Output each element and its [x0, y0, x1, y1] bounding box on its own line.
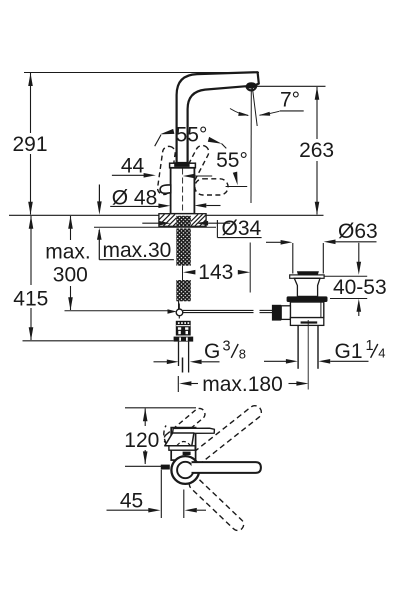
dimension 120 [144, 409, 146, 427]
wire: 40-53 bottom reference line [330, 298, 367, 300]
faucet spout outline [177, 72, 259, 163]
svg-text:Ø63: Ø63 [338, 220, 378, 243]
svg-text:143: 143 [198, 261, 233, 284]
dimension 263 vertical line [316, 87, 318, 139]
plan body [171, 428, 195, 461]
dimension 40-53 [358, 243, 360, 262]
svg-text:55°: 55° [176, 124, 208, 147]
drain flange lip [290, 275, 324, 278]
svg-text:7°: 7° [280, 89, 300, 112]
svg-text:291: 291 [12, 133, 47, 156]
drain side stub [281, 306, 290, 320]
arrow left of upper 55 [160, 129, 175, 135]
threaded shank segment 3 [176, 280, 191, 301]
arrows on escutcheon (mounting) [142, 222, 160, 224]
wire: 120 bottom reference line [125, 465, 162, 467]
svg-text:max.180: max.180 [202, 373, 283, 396]
G 1 1/4 callout arrows [264, 360, 286, 362]
drain inlet dark block [272, 305, 281, 321]
dimension 45 [160, 470, 162, 518]
drain locknut [290, 318, 323, 326]
svg-text:1: 1 [366, 338, 374, 354]
angle 7 degree vertical reference line [250, 86, 252, 203]
solid lever tip at body left [160, 185, 171, 193]
svg-text:max.30: max.30 [103, 239, 172, 262]
svg-text:263: 263 [299, 139, 334, 162]
svg-text:8: 8 [239, 346, 246, 361]
arrow below right 55 [233, 172, 238, 186]
drain flange extension lines [292, 243, 294, 274]
escutcheon hatch right [191, 214, 206, 226]
svg-text:120: 120 [124, 429, 159, 452]
supply connection nuts [176, 321, 191, 336]
max30 tick with up arrow [98, 230, 100, 260]
escutcheon flange at deck [159, 214, 206, 227]
max30 down arrow above deck [98, 185, 100, 204]
svg-text:300: 300 [53, 264, 88, 287]
svg-text:40-53: 40-53 [333, 276, 387, 299]
supply connection lower band [174, 337, 194, 342]
plan body dark tab [183, 452, 191, 455]
supply hoses [178, 342, 180, 366]
arrow right of upper 55 [208, 137, 222, 144]
wire: 415 bottom reference line [23, 340, 174, 342]
wire: horizontal pipe to drain [183, 309, 254, 311]
wire: max300 bottom reference line [65, 310, 169, 312]
wire: 143 right extension line [249, 243, 251, 293]
drain gasket dark ring [287, 296, 328, 302]
drain tailpipe [297, 325, 299, 368]
handle position dashed oval left [157, 146, 176, 196]
svg-text:45: 45 [120, 490, 143, 513]
dashed spout swung up-right [189, 403, 264, 466]
faucet body cap ring [170, 163, 196, 168]
svg-text:max.: max. [45, 241, 91, 264]
svg-text:Ø34: Ø34 [222, 217, 262, 240]
wire: 263 top reference line from aerator [256, 85, 326, 87]
shank centerline gap [182, 266, 184, 280]
dimension diameter 63 [266, 241, 281, 243]
svg-text:44: 44 [121, 154, 145, 177]
wire: 120 top reference line [125, 407, 196, 409]
body dashed centerline [182, 169, 184, 214]
arrow at body centerline for 44 [183, 174, 195, 179]
arrow right side body for diameter 48 [194, 203, 206, 208]
dimension 291 vertical line [30, 73, 32, 133]
plan lever blade [173, 428, 215, 433]
supply tee ball [176, 309, 183, 316]
wire: countertop deck line [9, 214, 324, 216]
wire: 40-53 top reference line [325, 275, 368, 277]
svg-text:G1: G1 [335, 340, 363, 363]
G 3/8 callout arrows [154, 361, 168, 363]
plan lever tip stub left [161, 465, 170, 470]
plan inner circle [177, 462, 193, 478]
threaded shank under flange [176, 216, 191, 227]
svg-text:3: 3 [223, 339, 231, 355]
drain neck [294, 278, 320, 296]
supply pin below shank [178, 301, 180, 310]
angle 7 degree arc with arrows [230, 109, 248, 116]
label diameter 34 [216, 220, 218, 238]
dimension max.300 vertical line [70, 216, 72, 240]
escutcheon hatch left [159, 214, 176, 226]
plan knob flange band [169, 446, 195, 450]
max180 left extension [177, 376, 179, 392]
wire: top reference line at spout height [24, 72, 259, 74]
wire: max30 deck-bottom line [94, 226, 216, 228]
aerator at spout tip [246, 82, 256, 88]
threaded shank segment 2 [176, 228, 191, 265]
angle 7 degree tilted stream line [252, 87, 257, 126]
dimension max.180 [179, 381, 191, 386]
faucet body [171, 168, 195, 214]
svg-text:G: G [204, 340, 220, 363]
handle position dashed oval upper-right [181, 143, 211, 184]
arrow into supply tee [168, 309, 177, 314]
plan lever knob [165, 433, 194, 446]
spout-body dark joint band [174, 162, 189, 167]
drain plug dark band [297, 271, 319, 275]
plan swivel circle [171, 456, 199, 484]
plan spout bar [192, 462, 261, 473]
dashed spout swung down-right [187, 476, 246, 533]
dashed lever swung up [162, 406, 207, 447]
dimension 143 [183, 270, 195, 275]
svg-text:55°: 55° [216, 149, 248, 172]
svg-text:4: 4 [378, 345, 385, 360]
dimension 415 vertical line [30, 216, 32, 285]
handle position dashed oval right horizontal [195, 179, 228, 195]
drain body [290, 302, 323, 318]
svg-text:415: 415 [13, 288, 48, 311]
